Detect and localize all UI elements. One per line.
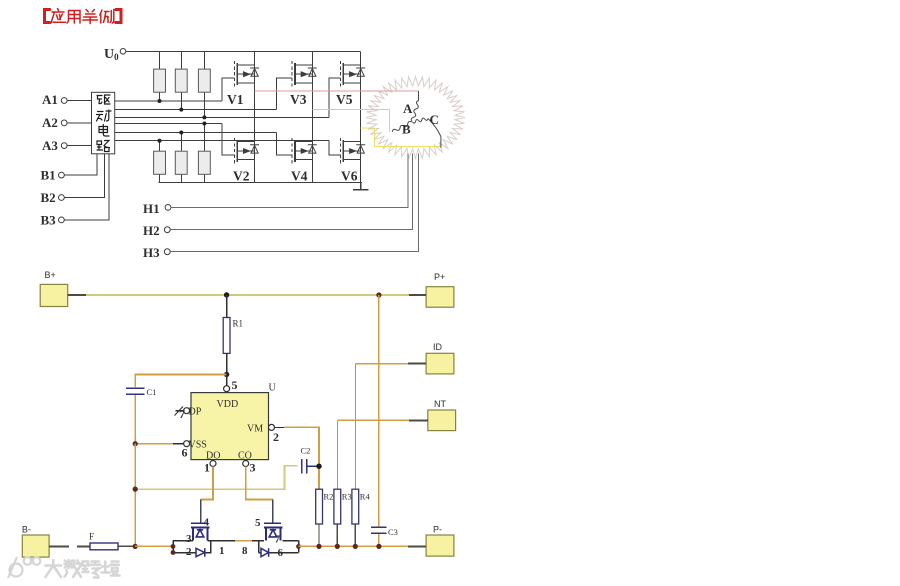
svg-text:A: A bbox=[403, 101, 413, 116]
MOSFET V4 bbox=[292, 138, 317, 164]
svg-text:3: 3 bbox=[186, 533, 192, 545]
svg-text:A2: A2 bbox=[42, 115, 58, 130]
svg-text:B2: B2 bbox=[41, 190, 56, 205]
svg-text:B: B bbox=[402, 122, 411, 137]
wire: Q2 terminals bbox=[259, 541, 299, 553]
wire H3 bbox=[170, 154, 418, 252]
pin 6 VSS bbox=[173, 443, 183, 445]
svg-text:R2: R2 bbox=[324, 492, 334, 502]
MOSFET V3 bbox=[292, 61, 317, 87]
svg-text:H2: H2 bbox=[143, 223, 160, 238]
wire B3 bbox=[64, 154, 109, 220]
svg-text:R4: R4 bbox=[360, 492, 371, 502]
svg-text:1: 1 bbox=[204, 461, 210, 475]
wire: B+ to P+ rail bbox=[86, 294, 409, 296]
svg-text:VSS: VSS bbox=[189, 440, 207, 451]
capacitor C3 bbox=[371, 527, 386, 533]
wire: VDD to C1 bbox=[135, 375, 226, 388]
svg-text:3: 3 bbox=[250, 461, 256, 475]
fuse F bbox=[90, 543, 118, 550]
diode D2 bbox=[261, 548, 269, 556]
svg-text:VDD: VDD bbox=[217, 399, 239, 410]
pin 3 CO bbox=[243, 461, 249, 467]
pad P- bbox=[426, 535, 454, 556]
wire B2 bbox=[64, 154, 104, 198]
svg-text:V3: V3 bbox=[290, 92, 307, 107]
wire A1 bbox=[67, 100, 92, 102]
svg-text:7: 7 bbox=[275, 534, 281, 546]
wire: phase leg V5/V6 bbox=[360, 51, 362, 182]
svg-text:P-: P- bbox=[433, 525, 442, 535]
wire: C1 bottom to VSS net bbox=[134, 395, 136, 444]
wire: V1 gate bbox=[222, 78, 235, 101]
svg-text:C: C bbox=[430, 112, 439, 127]
wire: V5 gate bbox=[329, 78, 340, 117]
svg-text:6: 6 bbox=[182, 446, 188, 460]
svg-text:C2: C2 bbox=[301, 446, 311, 456]
junction dots on gate bus bbox=[158, 99, 207, 143]
node: rail/R1 junction bbox=[224, 292, 229, 297]
svg-text:1: 1 bbox=[219, 545, 225, 557]
motor winding A bbox=[411, 91, 418, 122]
node: C2/R2 junction bbox=[316, 464, 321, 469]
motor winding C bbox=[413, 118, 441, 148]
terminal U0 bbox=[120, 49, 126, 55]
pin 5 VDD bbox=[226, 375, 228, 386]
svg-text:H1: H1 bbox=[143, 201, 160, 216]
resistor Re bottom pull-down bbox=[180, 133, 182, 183]
wire: CO to gate Q2 bbox=[246, 467, 273, 500]
pin 2 VM bbox=[269, 424, 275, 430]
motor stator ring bbox=[366, 77, 465, 159]
wire P- stub bbox=[408, 545, 426, 547]
svg-text:4: 4 bbox=[204, 517, 210, 529]
svg-text:C1: C1 bbox=[147, 387, 157, 397]
wire A2 bbox=[67, 122, 92, 124]
svg-text:B-: B- bbox=[22, 525, 31, 535]
resistor Ra top pull-up bbox=[159, 51, 161, 101]
wire: V3 gate bbox=[277, 78, 293, 110]
svg-text:A1: A1 bbox=[42, 92, 58, 107]
svg-text:V2: V2 bbox=[233, 169, 250, 184]
node: VSS net corner bbox=[133, 487, 138, 492]
MOSFET V6 bbox=[340, 138, 365, 164]
wire P+ stub bbox=[409, 294, 426, 296]
motor winding B bbox=[392, 121, 411, 131]
wire: VSS to left vertical bbox=[135, 443, 173, 445]
resistor Rd bottom pull-down bbox=[159, 141, 161, 183]
transistor Q2 (low-side MOSFET) bbox=[264, 500, 282, 541]
drive circuit block 驱动电路 bbox=[92, 92, 115, 154]
wire: bus line 4 bbox=[115, 123, 222, 125]
transistor Q1 (low-side MOSFET) bbox=[191, 500, 210, 541]
svg-text:C3: C3 bbox=[388, 527, 398, 537]
svg-text:U: U bbox=[269, 383, 277, 394]
pin 1 DO bbox=[210, 461, 216, 467]
top schematic (3-phase bridge driver) bbox=[115, 49, 369, 190]
svg-text:P+: P+ bbox=[434, 272, 445, 282]
svg-text:B1: B1 bbox=[41, 168, 56, 183]
svg-text:7: 7 bbox=[179, 407, 185, 421]
wire: VM to R2 top bbox=[284, 427, 319, 489]
node: VSS junction bbox=[133, 441, 138, 446]
wire: VSS net horizontal bbox=[134, 444, 136, 547]
resistor R1 bbox=[226, 295, 228, 375]
pad NT bbox=[428, 410, 456, 431]
wire: bus line 2 bbox=[115, 109, 277, 111]
svg-text:NT: NT bbox=[434, 399, 446, 409]
resistor R4 bbox=[354, 364, 356, 490]
node: fuse/C1 vertical junction bbox=[133, 544, 138, 549]
wire: phase A (red) bbox=[255, 90, 419, 92]
wire: bus line 5 bbox=[115, 132, 277, 134]
svg-text:V5: V5 bbox=[336, 92, 353, 107]
pad ID bbox=[426, 353, 454, 374]
wire: bus line 6 bbox=[115, 140, 330, 142]
svg-text:5: 5 bbox=[255, 517, 261, 529]
svg-text:2: 2 bbox=[273, 430, 279, 444]
svg-text:5: 5 bbox=[232, 378, 238, 392]
wire H1 bbox=[171, 154, 408, 208]
wire: U0 supply rail bbox=[126, 50, 361, 52]
svg-text:R1: R1 bbox=[233, 319, 244, 329]
wire: fuse to left vertical bbox=[118, 545, 135, 547]
node: R1 bottom / C1 tee bbox=[224, 372, 229, 377]
node: R4 bottom bbox=[353, 544, 358, 549]
wire: Q1 terminals bbox=[173, 541, 235, 553]
wire: bottom rail to P- bbox=[299, 545, 409, 547]
wire: bus line 3 bbox=[115, 116, 330, 118]
svg-text:F: F bbox=[89, 532, 94, 542]
resistor R2 bbox=[318, 524, 320, 546]
pad B+ bbox=[40, 284, 67, 306]
node: rail joint at Q2 bbox=[296, 544, 301, 549]
node: R3 bottom bbox=[335, 544, 340, 549]
svg-text:B3: B3 bbox=[41, 213, 57, 228]
svg-text:V1: V1 bbox=[227, 92, 244, 107]
svg-text:8: 8 bbox=[242, 545, 248, 557]
wire H2 bbox=[170, 154, 413, 230]
diode D1 bbox=[196, 548, 205, 556]
IC U bbox=[191, 393, 269, 460]
pad B- bbox=[22, 535, 49, 557]
wire: V2 gate bbox=[222, 124, 235, 155]
wire A3 bbox=[67, 145, 92, 147]
wire: bus line 1 bbox=[115, 100, 222, 102]
svg-text:DP: DP bbox=[189, 407, 202, 418]
node: R2 bottom bbox=[316, 544, 321, 549]
node: rail/C3 branch junction bbox=[376, 292, 381, 297]
MOSFET V5 bbox=[340, 61, 365, 87]
wire B1 bbox=[64, 154, 97, 175]
wire: bottom rail bbox=[158, 181, 362, 183]
svg-text:V4: V4 bbox=[291, 169, 308, 184]
wire: phase B (olive) bbox=[312, 110, 389, 132]
svg-text:A3: A3 bbox=[42, 138, 58, 153]
wire: V4 gate bbox=[277, 133, 293, 155]
wire ID bbox=[408, 363, 426, 365]
svg-text:H3: H3 bbox=[143, 245, 160, 260]
MOSFET V2 bbox=[234, 138, 259, 164]
svg-text:B+: B+ bbox=[45, 270, 56, 280]
wire: C3 branch vertical bbox=[378, 295, 380, 526]
ground bbox=[353, 182, 369, 189]
capacitor C1 bbox=[126, 388, 145, 394]
watermark text 大数跨境 bbox=[46, 560, 120, 578]
svg-text:VM: VM bbox=[247, 424, 263, 435]
svg-text:ID: ID bbox=[433, 342, 443, 352]
resistor Rf bottom pull-down bbox=[203, 124, 205, 183]
watermark logo bbox=[8, 557, 40, 578]
wire: V6 gate bbox=[329, 141, 340, 155]
wire: C2 right plate to VM net bbox=[307, 465, 319, 467]
svg-text:R3: R3 bbox=[342, 492, 352, 502]
wire: DO to gate Q1 bbox=[201, 467, 213, 500]
wire: phase leg V3/V4 bbox=[311, 51, 313, 182]
node: C3 bottom bbox=[376, 544, 381, 549]
resistor Rb top pull-up bbox=[180, 51, 182, 109]
title 【应用举例】 bbox=[45, 9, 122, 24]
wire NT bbox=[409, 419, 428, 421]
wire: phase C (yellow) bbox=[361, 128, 441, 146]
resistor R3 bbox=[336, 420, 338, 489]
wire B- stub bbox=[49, 545, 90, 547]
resistor Rc top pull-up bbox=[203, 51, 205, 117]
MOSFET V1 bbox=[234, 61, 259, 87]
svg-text:V6: V6 bbox=[341, 169, 358, 184]
wire: between Q1 and Q2 bbox=[235, 540, 252, 542]
wire B+ stub bbox=[68, 294, 86, 296]
wire: C3 bottom bbox=[378, 534, 380, 546]
wire: phase leg V1/V2 bbox=[254, 51, 256, 182]
wire: rail to Q1 bbox=[135, 545, 173, 547]
pin 7 DP bbox=[175, 410, 183, 412]
node: rail joints at Q1 bbox=[171, 544, 176, 549]
capacitor C2 bbox=[302, 459, 307, 473]
pad P+ bbox=[426, 287, 454, 308]
